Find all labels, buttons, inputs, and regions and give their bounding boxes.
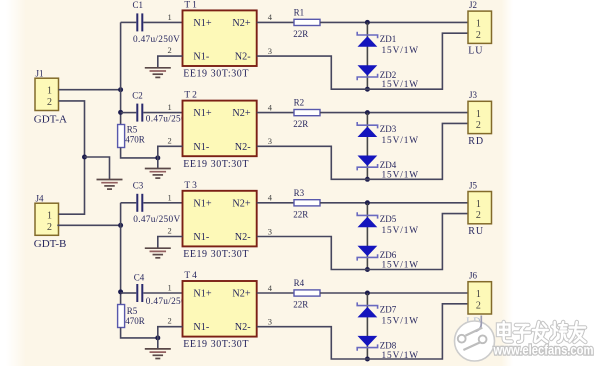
- svg-text:ZD2: ZD2: [380, 70, 397, 80]
- wire: [57, 224, 120, 226]
- capacitor C2: [121, 104, 183, 122]
- svg-text:15V/1W: 15V/1W: [382, 136, 419, 146]
- junction node zener top row 2: [365, 110, 370, 115]
- svg-text:T 2: T 2: [184, 91, 197, 101]
- watermark chinese text dian zi fa shao you: [498, 322, 585, 342]
- svg-text:J3: J3: [469, 90, 478, 100]
- wire: [257, 112, 294, 114]
- svg-text:C3: C3: [133, 181, 144, 191]
- wire bus bottom half: [120, 203, 122, 305]
- zener diode ZD8: [357, 336, 377, 351]
- svg-text:GDT-A: GDT-A: [34, 114, 67, 126]
- junction node zener top row 3: [365, 200, 370, 205]
- svg-text:J1: J1: [36, 69, 44, 79]
- ground: [145, 349, 171, 359]
- svg-text:1: 1: [476, 289, 481, 300]
- zener diode ZD4: [357, 156, 377, 171]
- svg-text:ZD3: ZD3: [380, 124, 397, 134]
- svg-text:1: 1: [168, 283, 172, 293]
- svg-text:ZD7: ZD7: [380, 304, 397, 314]
- svg-text:2: 2: [476, 300, 481, 311]
- svg-text:N1+: N1+: [193, 198, 211, 209]
- wire: [320, 21, 468, 23]
- svg-text:1: 1: [168, 192, 172, 202]
- transformer T1: [183, 10, 257, 66]
- svg-text:N2-: N2-: [235, 322, 251, 333]
- svg-text:3: 3: [268, 226, 272, 236]
- zener diode ZD1: [357, 32, 377, 47]
- svg-text:ZD1: ZD1: [380, 34, 397, 44]
- ground: [145, 68, 171, 78]
- zener diode ZD7: [357, 302, 377, 317]
- svg-text:0.47u/250V: 0.47u/250V: [133, 215, 180, 225]
- svg-text:GDT-B: GDT-B: [34, 238, 67, 250]
- svg-text:N2-: N2-: [235, 142, 251, 153]
- svg-text:22R: 22R: [293, 119, 308, 129]
- wire zener chain: [366, 293, 368, 359]
- connector J5: [468, 192, 492, 224]
- svg-text:4: 4: [268, 12, 273, 22]
- transformer T3: [183, 191, 257, 247]
- svg-text:3: 3: [268, 317, 272, 327]
- svg-text:2: 2: [476, 30, 481, 41]
- wire R5 to ground node: [121, 148, 158, 158]
- wire T3 pin2 to ground: [158, 237, 183, 249]
- junction node zener bottom row 3: [365, 267, 370, 272]
- resistor R2: [294, 110, 320, 116]
- svg-text:2: 2: [168, 316, 172, 326]
- svg-text:15V/1W: 15V/1W: [382, 46, 419, 56]
- zener diode ZD6: [357, 246, 377, 261]
- wire: [320, 292, 468, 294]
- capacitor C1: [121, 13, 183, 31]
- svg-text:N2+: N2+: [232, 289, 250, 300]
- svg-text:N2+: N2+: [232, 18, 250, 29]
- svg-text:J5: J5: [469, 180, 478, 190]
- svg-text:22R: 22R: [293, 29, 308, 39]
- svg-text:R3: R3: [294, 188, 305, 198]
- wire T4 pin2 to ground: [158, 327, 183, 349]
- svg-text:N1-: N1-: [193, 52, 209, 63]
- svg-text:15V/1W: 15V/1W: [382, 226, 419, 236]
- junction R5/T4 ground node: [155, 335, 160, 340]
- svg-text:4: 4: [268, 283, 273, 293]
- svg-text:J2: J2: [469, 0, 477, 10]
- svg-text:N1-: N1-: [193, 322, 209, 333]
- svg-text:R1: R1: [294, 7, 305, 17]
- ground: [145, 248, 171, 258]
- wire J1.2 to J4.1: [59, 101, 85, 214]
- connector J1: [35, 78, 59, 110]
- connector J2: [468, 11, 492, 43]
- svg-text:C1: C1: [133, 0, 144, 10]
- svg-text:1: 1: [168, 102, 172, 112]
- svg-text:ZD6: ZD6: [380, 250, 397, 260]
- svg-text:EE19 30T:30T: EE19 30T:30T: [183, 249, 249, 260]
- wire: [257, 292, 294, 294]
- svg-text:4: 4: [268, 193, 273, 203]
- svg-text:N2-: N2-: [235, 52, 251, 63]
- svg-text:1: 1: [168, 12, 172, 22]
- svg-text:www.elecfans.com: www.elecfans.com: [493, 343, 594, 358]
- svg-text:2: 2: [47, 97, 52, 108]
- ground: [145, 169, 171, 179]
- wire T4 pin3 return to J6 pin2: [257, 304, 468, 359]
- wire zener chain: [366, 203, 368, 270]
- resistor R3: [294, 200, 320, 206]
- svg-text:RD: RD: [468, 136, 484, 147]
- wire T2 pin2 to ground: [158, 146, 183, 168]
- wire R5 to ground node: [121, 328, 158, 338]
- wire T3 pin3 return to J5 pin2: [257, 214, 468, 270]
- transformer T2: [183, 101, 257, 157]
- svg-text:N2+: N2+: [232, 108, 250, 119]
- junction J4.2 on bus-D: [118, 223, 123, 228]
- svg-text:T 4: T 4: [184, 271, 197, 281]
- svg-text:R5: R5: [127, 124, 138, 134]
- svg-text:4: 4: [268, 102, 273, 112]
- svg-text:RU: RU: [468, 226, 484, 237]
- resistor R4: [294, 290, 320, 296]
- zener diode ZD2: [357, 65, 377, 80]
- connector J3: [468, 101, 492, 133]
- resistor R5 (lower): [118, 305, 125, 328]
- svg-text:T 3: T 3: [184, 181, 197, 191]
- svg-text:1: 1: [476, 109, 481, 120]
- watermark logo circle: [455, 316, 495, 362]
- junction node zener bottom row 1: [365, 87, 370, 92]
- svg-text:LU: LU: [468, 46, 483, 57]
- resistor R5 (upper): [118, 125, 125, 148]
- svg-text:470R: 470R: [125, 316, 145, 326]
- resistor R1: [294, 19, 320, 25]
- wire zener chain: [366, 22, 368, 89]
- svg-text:2: 2: [476, 210, 481, 221]
- svg-text:N1-: N1-: [193, 232, 209, 243]
- svg-text:15V/1W: 15V/1W: [382, 316, 419, 326]
- svg-text:22R: 22R: [293, 300, 308, 310]
- svg-text:1: 1: [47, 86, 52, 97]
- junction node zener bottom row 4: [365, 357, 370, 362]
- svg-text:N1-: N1-: [193, 142, 209, 153]
- svg-text:R2: R2: [294, 98, 305, 108]
- svg-text:ZD8: ZD8: [380, 340, 397, 350]
- junction node zener bottom row 2: [365, 177, 370, 182]
- wire T1 pin3 return to J2 pin2: [257, 33, 468, 89]
- svg-text:470R: 470R: [125, 134, 145, 144]
- svg-text:C2: C2: [132, 90, 143, 100]
- connector J6: [468, 282, 492, 314]
- wire: [320, 202, 468, 204]
- transformer T4: [183, 281, 257, 337]
- svg-text:2: 2: [476, 120, 481, 131]
- junction ground branch: [82, 155, 87, 160]
- wire T1 pin2 to ground: [158, 56, 183, 68]
- zener diode ZD5: [357, 212, 377, 227]
- wire: [59, 89, 121, 91]
- junction R5/T2 ground node: [155, 155, 160, 160]
- svg-text:1: 1: [476, 19, 481, 30]
- junction node bus-A/J1.1: [118, 87, 123, 92]
- svg-text:2: 2: [168, 135, 172, 145]
- svg-text:0.47u/250V: 0.47u/250V: [133, 35, 180, 45]
- wire T2 pin3 return to J3 pin2: [257, 123, 468, 179]
- svg-text:J4: J4: [36, 194, 45, 204]
- connector J4: [35, 203, 59, 235]
- svg-text:3: 3: [268, 136, 272, 146]
- zener diode ZD3: [357, 122, 377, 137]
- wire to ground: [85, 157, 110, 179]
- svg-text:N1+: N1+: [193, 289, 211, 300]
- svg-text:EE19 30T:30T: EE19 30T:30T: [183, 339, 249, 350]
- svg-text:EE19 30T:30T: EE19 30T:30T: [183, 69, 249, 80]
- capacitor C4: [121, 284, 183, 302]
- wire: [257, 21, 294, 23]
- svg-text:N2+: N2+: [232, 198, 250, 209]
- junction node zener top row 1: [365, 20, 370, 25]
- svg-text:2: 2: [47, 222, 52, 233]
- wire bus top half: [120, 22, 122, 124]
- junction node zener top row 4: [365, 291, 370, 296]
- svg-text:R4: R4: [294, 278, 305, 288]
- svg-text:2: 2: [168, 45, 172, 55]
- svg-text:R5: R5: [127, 306, 138, 316]
- wire: [320, 112, 468, 114]
- svg-text:3: 3: [268, 46, 272, 56]
- junction C4 tap: [118, 289, 123, 294]
- svg-text:1: 1: [476, 199, 481, 210]
- svg-text:J6: J6: [469, 271, 478, 281]
- wire zener chain: [366, 113, 368, 180]
- ground: [97, 180, 123, 190]
- svg-text:22R: 22R: [293, 209, 308, 219]
- svg-text:ZD4: ZD4: [380, 160, 397, 170]
- junction C2 tap: [118, 110, 123, 115]
- svg-text:EE19 30T:30T: EE19 30T:30T: [183, 159, 249, 170]
- svg-text:N1+: N1+: [193, 18, 211, 29]
- svg-text:T 1: T 1: [184, 0, 197, 10]
- svg-text:N1+: N1+: [193, 108, 211, 119]
- svg-text:1: 1: [47, 211, 52, 222]
- svg-text:ZD5: ZD5: [380, 214, 397, 224]
- svg-text:C4: C4: [134, 273, 145, 283]
- wire: [257, 202, 294, 204]
- svg-text:N2-: N2-: [235, 232, 251, 243]
- capacitor C3: [121, 194, 183, 212]
- svg-text:2: 2: [168, 226, 172, 236]
